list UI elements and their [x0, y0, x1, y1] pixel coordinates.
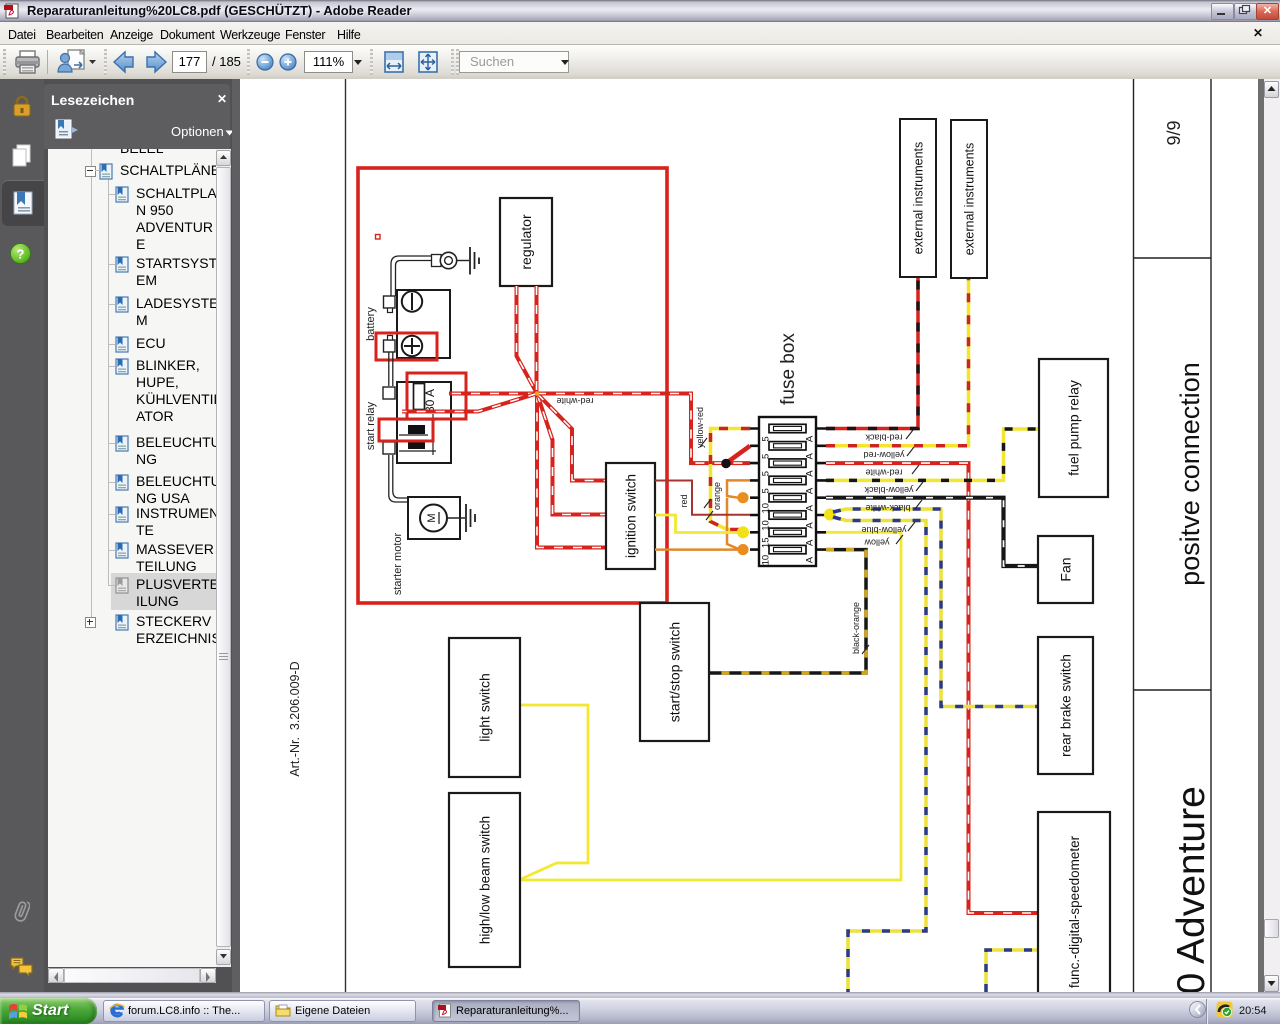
window buttons: [1211, 3, 1234, 20]
ignition switch S1: [606, 463, 655, 569]
comments icon: [9, 955, 34, 979]
help icon: [10, 243, 31, 264]
tray divider: [1206, 999, 1207, 1024]
fit width icon: [384, 51, 404, 73]
title bar: [0, 0, 1280, 22]
tree h-scrollbar: [48, 968, 216, 983]
external instruments 1: [900, 119, 936, 277]
func digital speedometer: [1038, 812, 1110, 1012]
node orange dot fuse5: [737, 492, 748, 503]
task button 1: [103, 1000, 265, 1022]
svg-text:black-white: black-white: [865, 503, 910, 513]
svg-text:starter motor: starter motor: [392, 532, 404, 595]
svg-text:30 A: 30 A: [423, 389, 437, 413]
wire orange node1 to node2: [727, 498, 740, 550]
svg-text:red-white: red-white: [556, 396, 593, 406]
cable battery to start relay: [389, 352, 393, 386]
fuse 30A: [414, 384, 438, 414]
battery cable (minus to ring terminal): [391, 256, 432, 296]
wire regulator right red-white: [535, 286, 539, 394]
wire regulator left red-white: [517, 286, 538, 394]
svg-text:external instruments: external instruments: [912, 142, 926, 255]
svg-text:ignition switch: ignition switch: [623, 474, 638, 558]
svg-text:fuse box: fuse box: [778, 333, 799, 405]
svg-text:fuel pump relay: fuel pump relay: [1066, 380, 1082, 476]
label leader ticks: [700, 430, 923, 654]
wire junction to relay lower: [402, 394, 537, 412]
window bottom edge: [0, 992, 1280, 998]
svg-text:red-black: red-black: [865, 433, 903, 443]
battery: [384, 290, 451, 358]
fit page icon: [418, 51, 438, 73]
red highlight rectangle (start system): [358, 168, 667, 603]
svg-text:yellow-red: yellow-red: [863, 450, 904, 460]
svg-text:?: ?: [17, 247, 25, 262]
svg-text:Fan: Fan: [1058, 557, 1074, 581]
ring terminal: [432, 252, 457, 268]
node yellow dot fuse7: [737, 526, 749, 538]
search box: [459, 51, 569, 73]
fuel pump relay K1: [1039, 359, 1108, 497]
high-low beam switch S5: [449, 793, 520, 967]
tray chevron: [1189, 1001, 1206, 1018]
lock icon: [11, 95, 33, 118]
cable relay to starter motor: [389, 455, 408, 502]
zoom out / in: [256, 53, 298, 71]
svg-text:external instruments: external instruments: [963, 143, 977, 256]
red highlight (battery + terminal): [376, 333, 437, 360]
wire junction to 30A fuse upper: [449, 392, 537, 396]
svg-text:A: A: [805, 556, 816, 563]
wire red fuse2 to node B: [727, 446, 750, 463]
zoom value: [304, 51, 353, 73]
node B black junction dot: [721, 459, 731, 469]
menu bar: [0, 22, 1280, 45]
svg-text:func.-digital-speedometer: func.-digital-speedometer: [1067, 835, 1082, 988]
svg-text:red-white: red-white: [865, 468, 902, 478]
small red marker: [376, 235, 381, 240]
wire yellow light switch branch: [520, 705, 588, 880]
toolbar: [0, 45, 1280, 80]
svg-text:rear brake switch: rear brake switch: [1058, 654, 1073, 757]
red highlight (30A fuse): [407, 373, 466, 419]
paperclip icon: [13, 897, 30, 924]
task button 3 (active): [432, 1000, 580, 1022]
node star junction: [535, 391, 540, 396]
wire junction to ignition pin3: [537, 394, 606, 548]
wire yellow-black fuse4 to fuel pump relay: [826, 429, 1039, 480]
svg-text:950 Adventure: 950 Adventure: [1170, 786, 1213, 992]
title block frame: [1134, 79, 1212, 992]
starter motor M1: [408, 497, 460, 539]
wire yellow-red fuse2 to external instruments 2: [826, 278, 969, 446]
PDF page background: [240, 79, 1258, 992]
wire yellow-blue lower branch: [833, 517, 926, 992]
svg-text:9/9: 9/9: [1164, 120, 1184, 145]
options row icon: [55, 119, 79, 139]
wire yellow-blue bottom to speedometer: [986, 950, 1038, 992]
wire black-orange fuse8 to start-stop switch: [709, 550, 866, 673]
svg-text:red: red: [679, 494, 689, 507]
printer icon: [14, 49, 42, 76]
wire junction to ignition pin2: [537, 394, 606, 515]
wire red-white junction to fuse 3: [537, 394, 750, 464]
wire orange fuse4 branch: [727, 480, 750, 497]
wire orange to ignition switch: [655, 548, 740, 551]
svg-text:yellow-blue: yellow-blue: [861, 525, 906, 535]
toolbar grips/separators: [3, 49, 6, 75]
wire yellow-blue to rear brake switch: [833, 509, 1038, 707]
external instruments 2: [951, 120, 987, 278]
rear brake switch S2: [1038, 637, 1093, 774]
wire junction to ignition pin1: [537, 394, 606, 481]
svg-text:yellow-black: yellow-black: [864, 485, 914, 495]
start relay U2: [383, 382, 451, 463]
start-stop switch S3: [640, 603, 709, 741]
diagram frame left border line: [345, 79, 347, 992]
ground (battery): [457, 247, 479, 275]
document v-scrollbar: [1264, 79, 1280, 992]
wire yellow ignition to node: [655, 515, 738, 533]
tree v-scrollbar: [216, 149, 231, 967]
node yellow dot right of fuse6: [824, 509, 836, 521]
tree area: [48, 149, 216, 967]
svg-text:orange: orange: [712, 482, 722, 510]
svg-text:M: M: [426, 513, 438, 522]
wire yellow-red fuse1 to yellow node: [711, 429, 751, 530]
red highlight (relay contact): [379, 419, 433, 441]
tray icon: [1216, 1001, 1233, 1018]
task button 2: [269, 1000, 416, 1022]
pages icon: [11, 143, 33, 169]
svg-text:start relay: start relay: [365, 401, 377, 450]
wire yellow fuse7 to high-low beam switch: [520, 532, 901, 880]
svg-text:10: 10: [761, 555, 772, 566]
wire red ignition to fuse6: [655, 481, 750, 515]
regulator U3: [500, 198, 552, 286]
svg-text:yellow: yellow: [864, 538, 890, 548]
page number box: [172, 51, 207, 73]
nav arrows: [113, 50, 168, 74]
wire black-white fuse5 to fan: [826, 498, 1038, 566]
svg-text:positve connection: positve connection: [1175, 362, 1205, 586]
pdf app icon: [4, 3, 20, 19]
svg-text:regulator: regulator: [518, 214, 534, 270]
ground (starter motor): [447, 504, 475, 532]
wire red-black fuse1 to external instruments 1: [826, 277, 918, 429]
fuse box F1-F8: [750, 417, 827, 566]
svg-text:start/stop switch: start/stop switch: [667, 622, 683, 722]
svg-text:Art.-Nr. 3.206.009-D: Art.-Nr. 3.206.009-D: [288, 661, 302, 776]
light switch S4: [449, 638, 520, 777]
fan M2: [1038, 536, 1093, 603]
node orange dot fuse8: [737, 544, 748, 555]
svg-text:high/low beam switch: high/low beam switch: [477, 816, 492, 944]
start button: [0, 998, 97, 1024]
share icon + arrow: [56, 48, 96, 76]
wire red-white fuse3 to speedometer: [826, 463, 1038, 913]
svg-text:light switch: light switch: [477, 673, 493, 741]
bookmarks tab (selected): [2, 180, 44, 226]
svg-text:black-orange: black-orange: [851, 602, 861, 654]
